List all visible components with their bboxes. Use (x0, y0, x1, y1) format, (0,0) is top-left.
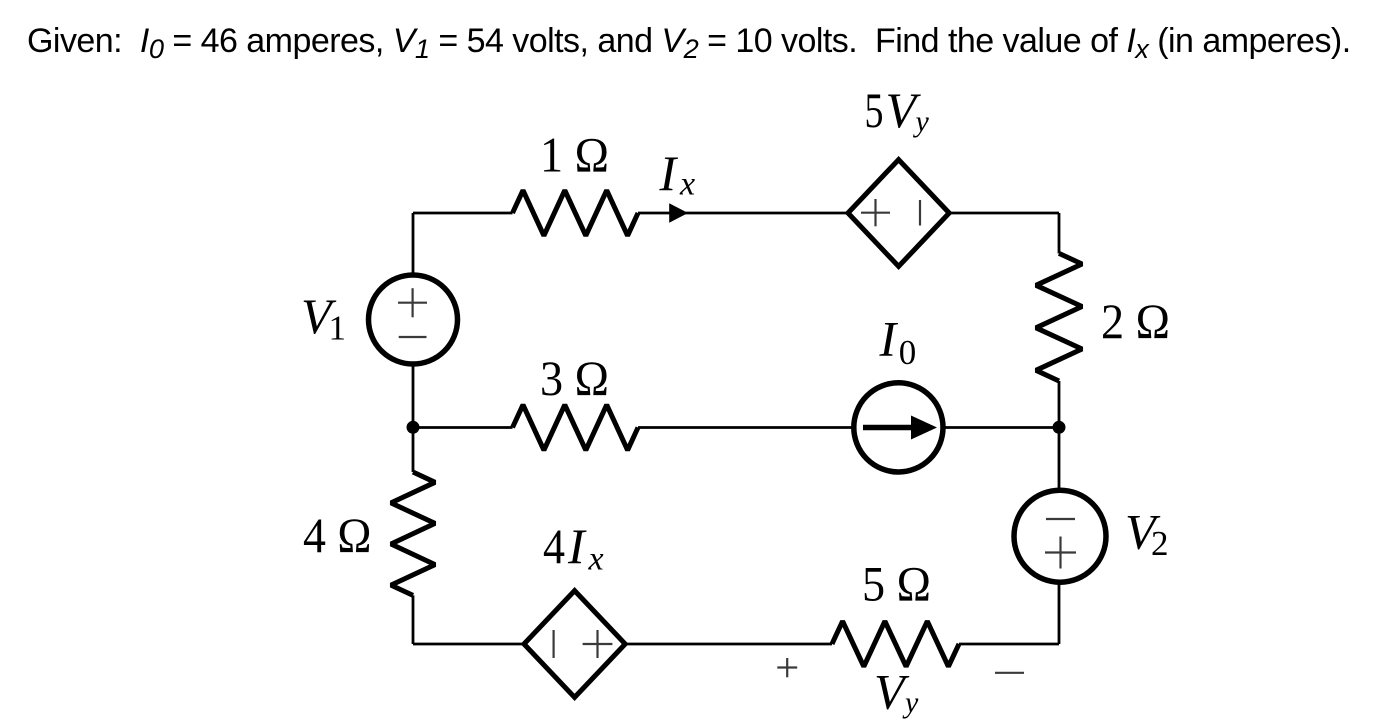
svg-text:x: x (588, 541, 604, 578)
svg-text:I: I (567, 518, 587, 574)
svg-text:1: 1 (329, 309, 347, 348)
svg-text:4 Ω: 4 Ω (303, 507, 372, 563)
svg-text:4: 4 (543, 518, 565, 574)
svg-text:5: 5 (865, 82, 884, 138)
svg-text:y: y (902, 686, 919, 719)
svg-text:1 Ω: 1 Ω (540, 127, 609, 183)
svg-text:I: I (659, 145, 679, 201)
svg-text:x: x (679, 166, 695, 203)
svg-text:2 Ω: 2 Ω (1101, 293, 1170, 349)
svg-text:I: I (879, 310, 899, 366)
svg-text:3 Ω: 3 Ω (540, 350, 609, 406)
svg-text:5 Ω: 5 Ω (862, 556, 931, 612)
svg-text:2: 2 (1151, 524, 1169, 563)
svg-text:y: y (913, 105, 930, 138)
svg-text:0: 0 (899, 333, 917, 372)
